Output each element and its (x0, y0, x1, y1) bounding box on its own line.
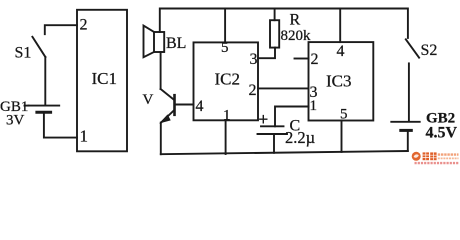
watermark small text row 1 (438, 153, 459, 155)
svg-text:R: R (290, 12, 301, 29)
transistor V emitter lead (162, 110, 175, 122)
speaker BL cone (144, 26, 155, 58)
wire emitter to bottom rail (160, 123, 162, 155)
transistor V base bar (173, 95, 176, 115)
svg-text:V: V (143, 92, 154, 108)
svg-text:2: 2 (311, 51, 319, 68)
IC1 box (77, 10, 127, 152)
battery GB1 negative plate (37, 111, 51, 114)
svg-text:4.5V: 4.5V (426, 125, 458, 142)
bottom rail wire (161, 151, 408, 154)
svg-text:4: 4 (337, 43, 345, 60)
IC3 box (309, 42, 374, 120)
svg-text:2: 2 (249, 82, 257, 99)
watermark bottom text row (415, 162, 459, 164)
capacitor C plus sign (260, 116, 267, 123)
wire IC2 pin 2 to IC3 pin 3 (258, 87, 309, 89)
wire stub IC3 pin 2 (295, 58, 309, 60)
svg-text:5: 5 (340, 107, 348, 123)
wire S1 top to IC1 pin 2 (45, 25, 77, 34)
svg-text:4: 4 (196, 98, 204, 115)
svg-text:IC3: IC3 (326, 72, 352, 91)
svg-text:1: 1 (310, 98, 318, 114)
watermark logo circle inner mark (414, 154, 419, 157)
svg-text:S1: S1 (15, 45, 32, 62)
switch S2 blade (406, 39, 419, 57)
battery GB1 positive plate (29, 105, 60, 107)
speaker BL rectangle (154, 32, 164, 52)
transistor V base lead to IC2 pin 4 (176, 104, 194, 106)
wire IC2 pin 5 to top rail (224, 9, 226, 43)
resistor R body (270, 20, 279, 47)
battery GB2 positive plate (391, 121, 419, 123)
svg-text:1: 1 (80, 127, 89, 146)
svg-text:3: 3 (250, 51, 258, 68)
svg-text:820k: 820k (281, 28, 312, 44)
watermark glyph 1 white strokes (423, 152, 429, 160)
svg-text:S2: S2 (421, 42, 438, 59)
watermark glyph 2 white strokes (430, 152, 436, 160)
transistor V collector lead (161, 89, 174, 100)
svg-text:1: 1 (223, 108, 231, 124)
IC2 box (194, 42, 259, 120)
svg-text:3V: 3V (6, 113, 25, 129)
capacitor C top plate (261, 125, 284, 127)
watermark small text row 2 (438, 157, 459, 159)
watermark logo circle (412, 152, 421, 161)
battery GB2 negative plate (401, 129, 412, 132)
top rail wire (160, 9, 408, 38)
watermark glyph block 2 (430, 152, 436, 160)
wire GB1 to IC1 pin 1 (44, 114, 77, 138)
wire GB2 to bottom rail (407, 132, 409, 151)
wire IC2 pin 3 to resistor R (258, 48, 275, 59)
wire S2 lower contact to GB2 (408, 63, 410, 121)
wire IC3 pin 1 to capacitor C (275, 107, 309, 127)
svg-text:BL: BL (166, 35, 186, 52)
wire speaker to transistor collector (160, 52, 162, 89)
svg-text:IC2: IC2 (215, 69, 241, 88)
wire capacitor C to bottom rail (273, 134, 275, 153)
GB1 label dash (25, 105, 29, 107)
capacitor C bottom plate (258, 133, 288, 135)
wire IC3 pin 4 to top rail (339, 9, 341, 43)
wire IC3 pin 5 to bottom rail (341, 121, 343, 152)
transistor V emitter arrowhead (161, 115, 170, 122)
resistor R top lead (274, 9, 276, 21)
svg-text:IC1: IC1 (92, 69, 118, 88)
watermark glyph block 1 (423, 152, 429, 160)
wire IC2 pin 1 to bottom rail (225, 120, 227, 154)
svg-text:5: 5 (221, 40, 229, 56)
wire S1 lower contact to GB1 (44, 57, 46, 105)
switch S1 blade (32, 37, 45, 57)
svg-text:2: 2 (80, 17, 88, 34)
svg-text:2.2µ: 2.2µ (285, 128, 315, 147)
